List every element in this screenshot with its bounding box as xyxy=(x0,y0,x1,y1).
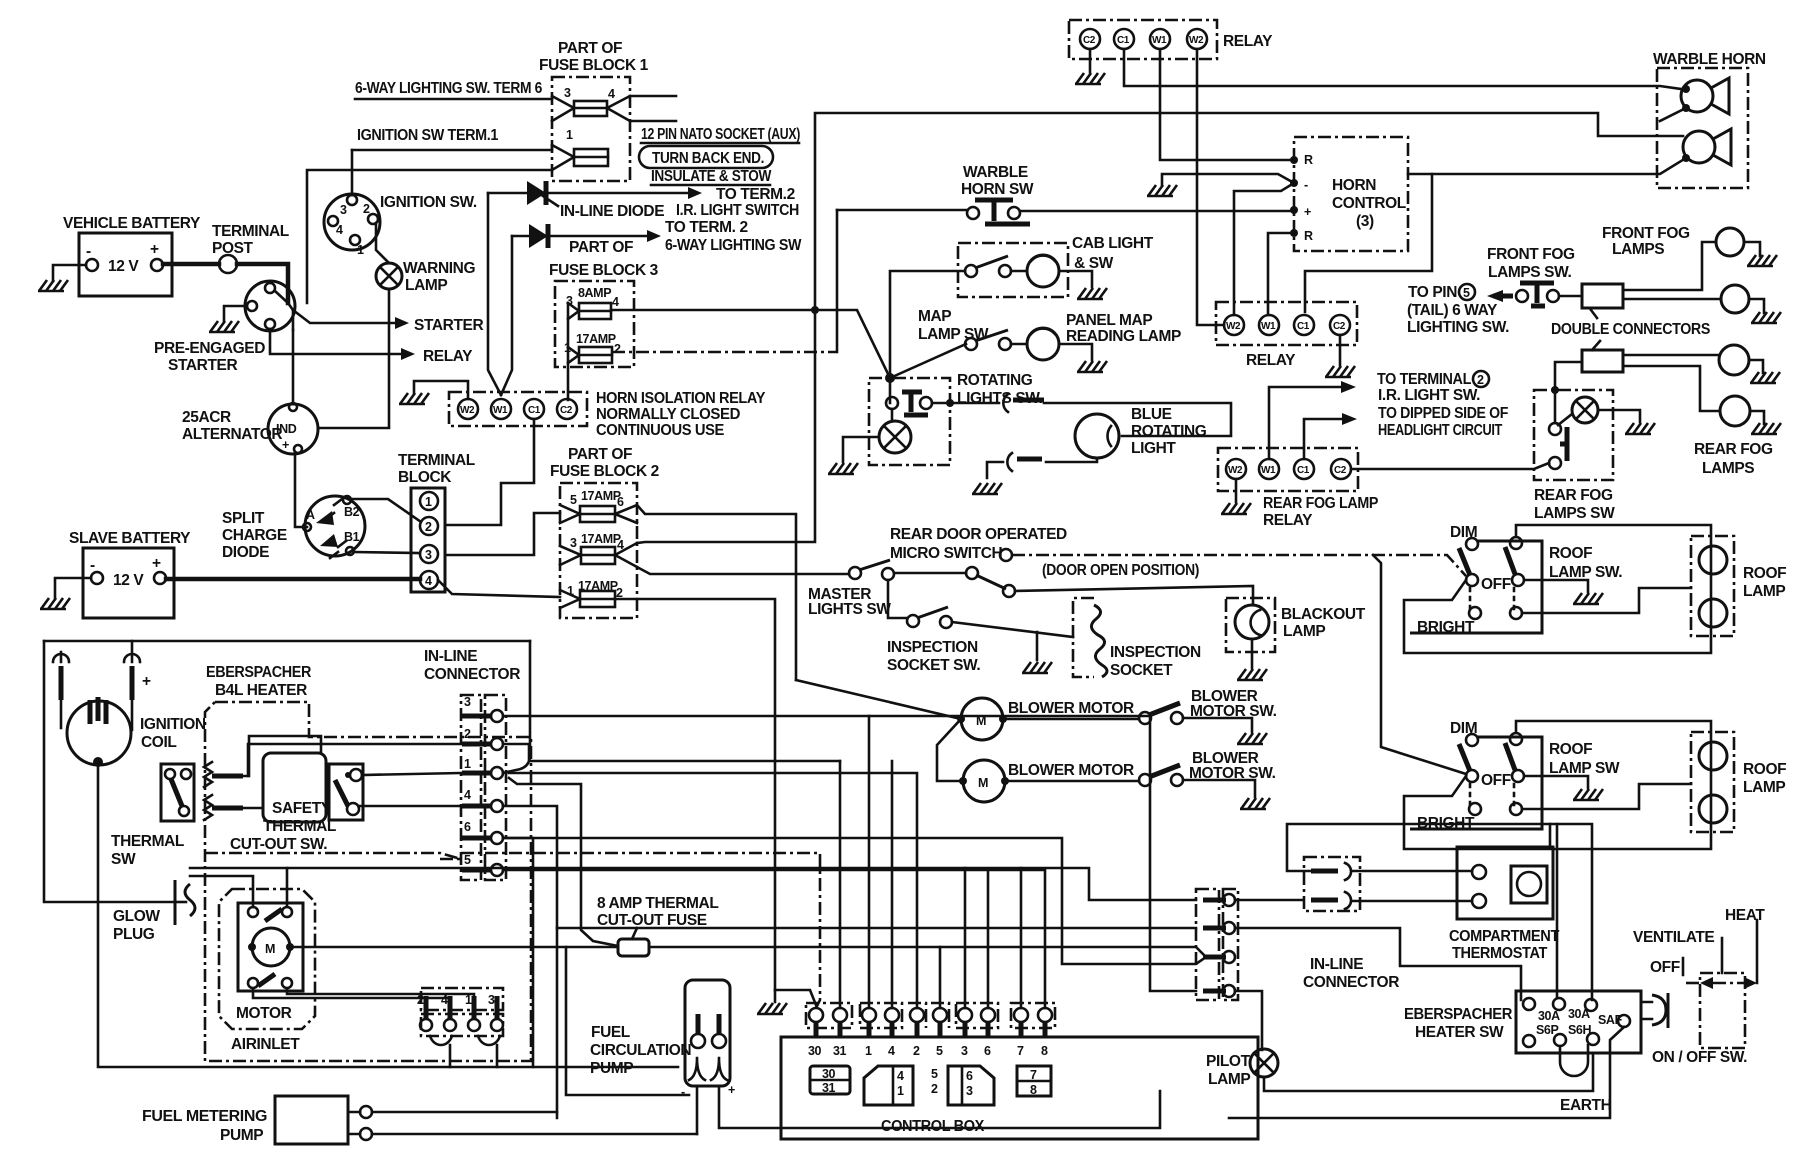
panel map reading lamp xyxy=(1027,328,1059,360)
wire warning lamp down to alternator xyxy=(318,289,389,428)
wire pin1 to 8amp fuse xyxy=(509,778,618,946)
rotating lights sw box xyxy=(869,378,950,465)
svg-text:FUEL METERING: FUEL METERING xyxy=(142,1108,267,1125)
svg-text:CONTROL BOX: CONTROL BOX xyxy=(881,1118,985,1135)
svg-text:FUSE BLOCK 1: FUSE BLOCK 1 xyxy=(539,57,649,74)
split charge diode xyxy=(305,496,365,556)
svg-text:3: 3 xyxy=(570,536,577,550)
svg-text:6: 6 xyxy=(617,495,624,509)
wire B1 to terminal 3 xyxy=(354,552,420,553)
wire master sw down to inspection sw xyxy=(888,580,907,618)
safety sw wires to connector xyxy=(359,773,461,806)
fuse 3-4 xyxy=(581,547,615,564)
earth wire xyxy=(1229,1027,1624,1118)
svg-text:BLOCK: BLOCK xyxy=(398,469,452,486)
wire fuse1-2 right down xyxy=(637,599,775,990)
svg-text:W1: W1 xyxy=(1261,465,1276,476)
horn isolation relay xyxy=(449,392,587,426)
in-line connector 4pin xyxy=(1196,889,1219,1000)
svg-text:HEATER SW: HEATER SW xyxy=(1415,1024,1504,1041)
svg-text:LAMP: LAMP xyxy=(1283,623,1325,640)
push switch in box xyxy=(886,397,898,409)
relay (top) xyxy=(1069,20,1217,59)
roof lamps 1 xyxy=(1691,536,1734,636)
svg-text:IN-LINE DIODE: IN-LINE DIODE xyxy=(560,203,664,220)
25ACR alternator xyxy=(268,404,318,454)
ground tap on inspection wire xyxy=(1036,632,1039,660)
svg-text:IND: IND xyxy=(276,422,297,436)
svg-text:3: 3 xyxy=(488,993,495,1007)
svg-text:LAMP: LAMP xyxy=(405,277,447,294)
svg-text:W2: W2 xyxy=(1226,321,1241,332)
8 amp fuse xyxy=(618,939,649,956)
svg-text:3: 3 xyxy=(425,548,432,562)
dash-dot wire to pin5 xyxy=(205,853,461,859)
motor wires xyxy=(190,868,287,907)
fuel circulation pump xyxy=(685,980,730,1086)
svg-text:1: 1 xyxy=(464,757,471,771)
svg-text:IN-LINE: IN-LINE xyxy=(1310,956,1363,973)
X lamp in box xyxy=(879,421,911,453)
svg-text:12 V: 12 V xyxy=(108,258,139,275)
ground at control box xyxy=(775,990,816,1005)
control box pins xyxy=(809,1008,1052,1022)
svg-text:PART OF: PART OF xyxy=(568,446,632,463)
svg-text:LAMP SW.: LAMP SW. xyxy=(1549,564,1622,581)
fuse 3-4 xyxy=(574,101,607,116)
heater sw pin2 supply xyxy=(1556,824,1559,998)
wires to thermostat xyxy=(1352,871,1472,901)
relay 2 xyxy=(1216,302,1357,345)
svg-text:8: 8 xyxy=(1041,1044,1048,1058)
svg-text:3: 3 xyxy=(966,1084,973,1098)
wire through 8amp fuse xyxy=(649,947,1206,957)
svg-text:PRE-ENGAGED: PRE-ENGAGED xyxy=(154,340,265,357)
svg-text:REAR FOG: REAR FOG xyxy=(1694,441,1773,458)
svg-text:LIGHT: LIGHT xyxy=(1131,440,1176,457)
wire rotating sw to arc switch 1 xyxy=(932,402,999,405)
svg-text:RELAY: RELAY xyxy=(1246,352,1296,369)
wire junction down to alternator top xyxy=(292,330,295,404)
svg-text:OFF: OFF xyxy=(1481,772,1511,789)
svg-text:MICRO SWITCH: MICRO SWITCH xyxy=(890,545,1003,562)
svg-text:FUEL: FUEL xyxy=(591,1024,630,1041)
svg-text:+: + xyxy=(1304,205,1311,219)
svg-text:R: R xyxy=(1304,153,1313,167)
rear fog lamp 1 xyxy=(1719,345,1749,375)
svg-text:6-WAY LIGHTING SW. TERM 6: 6-WAY LIGHTING SW. TERM 6 xyxy=(355,80,543,97)
lamp right lead to ground xyxy=(1598,410,1640,422)
wire micro sw right to blackout lamp xyxy=(1015,586,1253,605)
svg-text:BLACKOUT: BLACKOUT xyxy=(1281,606,1366,623)
svg-text:6-WAY LIGHTING SW: 6-WAY LIGHTING SW xyxy=(665,237,802,254)
svg-text:SOCKET SW.: SOCKET SW. xyxy=(887,657,980,674)
svg-text:PUMP: PUMP xyxy=(220,1127,263,1144)
svg-text:HORN SW: HORN SW xyxy=(961,181,1034,198)
double connector 1 xyxy=(1582,284,1623,308)
fuse 5-6 xyxy=(580,506,615,522)
svg-text:(DOOR OPEN POSITION): (DOOR OPEN POSITION) xyxy=(1042,562,1199,579)
svg-text:CUT-OUT FUSE: CUT-OUT FUSE xyxy=(597,912,707,929)
svg-text:OFF: OFF xyxy=(1650,959,1680,976)
svg-text:LAMPS SW: LAMPS SW xyxy=(1534,505,1615,522)
svg-text:WARBLE: WARBLE xyxy=(963,164,1028,181)
wire pin4 down xyxy=(503,806,557,1118)
ground under relay2 C2 xyxy=(1339,335,1342,365)
svg-text:M: M xyxy=(978,776,988,790)
svg-text:CONTINUOUS USE: CONTINUOUS USE xyxy=(596,422,724,439)
svg-text:WARNING: WARNING xyxy=(403,260,475,277)
cab lamp xyxy=(1027,255,1059,287)
svg-text:PUMP: PUMP xyxy=(590,1060,633,1077)
wire fuse1-2 right to warble horn sw riser xyxy=(612,351,837,354)
svg-text:DIODE: DIODE xyxy=(222,544,269,561)
svg-text:NORMALLY CLOSED: NORMALLY CLOSED xyxy=(596,406,740,423)
door open dash bus xyxy=(1012,555,1466,576)
airinlet box xyxy=(219,889,315,1029)
svg-text:CONNECTOR: CONNECTOR xyxy=(424,666,520,683)
svg-text:SPLIT: SPLIT xyxy=(222,510,265,527)
pilot lamp bottom wire xyxy=(1264,1053,1593,1091)
fuse 1 xyxy=(574,149,608,166)
master lights switch xyxy=(849,567,861,579)
wire fuse5-6 right down xyxy=(637,505,796,680)
svg-text:2: 2 xyxy=(931,1082,938,1096)
svg-text:SOCKET: SOCKET xyxy=(1110,662,1173,679)
pilot lamp xyxy=(1250,1049,1278,1077)
svg-text:OFF: OFF xyxy=(1481,576,1511,593)
starter left pin to ground xyxy=(224,306,247,321)
svg-text:VENTILATE: VENTILATE xyxy=(1633,929,1714,946)
warning lamp xyxy=(376,263,402,289)
svg-text:INSULATE & STOW: INSULATE & STOW xyxy=(651,168,772,185)
svg-text:IGNITION SW TERM.1: IGNITION SW TERM.1 xyxy=(357,127,499,144)
arc switch 1 xyxy=(1003,394,1008,412)
svg-text:ON / OFF SW.: ON / OFF SW. xyxy=(1652,1049,1747,1066)
svg-text:MOTOR: MOTOR xyxy=(236,1005,292,1022)
roof lamp sw 2 xyxy=(1410,737,1542,829)
glow plug wire right xyxy=(190,868,1196,900)
svg-text:3: 3 xyxy=(961,1044,968,1058)
svg-text:17AMP: 17AMP xyxy=(581,489,621,503)
wire motor2 to switch xyxy=(1009,780,1139,783)
svg-text:8 AMP THERMAL: 8 AMP THERMAL xyxy=(597,895,718,912)
svg-text:CONTROL: CONTROL xyxy=(1332,195,1406,212)
blower motor 2 xyxy=(963,760,1005,802)
compartment thermostat xyxy=(1457,847,1553,919)
svg-text:PART OF: PART OF xyxy=(558,40,622,57)
wire C2 to rear fog lamps sw xyxy=(1351,463,1549,469)
svg-text:HORN: HORN xyxy=(1332,177,1376,194)
fmp wires xyxy=(372,1112,697,1134)
svg-text:TO DIPPED SIDE OF: TO DIPPED SIDE OF xyxy=(1378,405,1508,422)
svg-text:12 PIN NATO SOCKET (AUX): 12 PIN NATO SOCKET (AUX) xyxy=(641,126,800,143)
svg-text:ROOF: ROOF xyxy=(1743,761,1786,778)
feed to motors xyxy=(796,680,961,781)
svg-text:S6H: S6H xyxy=(1568,1023,1591,1037)
motor M xyxy=(252,928,290,966)
connector row wires right xyxy=(1235,899,1303,902)
micro switch upper contact xyxy=(1000,549,1012,561)
rear fog lamp 2 xyxy=(1720,396,1750,426)
ground at horn isolation relay W2 xyxy=(414,381,468,399)
svg-text:W1: W1 xyxy=(1261,321,1276,332)
svg-text:PILOT: PILOT xyxy=(1206,1053,1251,1070)
svg-text:1: 1 xyxy=(566,128,573,142)
safety body xyxy=(263,753,326,822)
front fog lamp 2 xyxy=(1721,285,1749,313)
svg-text:C1: C1 xyxy=(1117,35,1130,46)
svg-text:1: 1 xyxy=(465,993,472,1007)
front fog lamp 1 xyxy=(1716,228,1744,256)
svg-text:LAMP: LAMP xyxy=(1743,779,1785,796)
svg-text:CUT-OUT SW.: CUT-OUT SW. xyxy=(230,836,327,853)
svg-text:LAMP: LAMP xyxy=(1208,1071,1250,1088)
svg-text:7: 7 xyxy=(1030,1068,1037,1082)
ground under C2 xyxy=(1089,49,1092,72)
svg-text:AIRINLET: AIRINLET xyxy=(231,1036,300,1053)
rear fog lamp relay xyxy=(1218,448,1358,491)
plus pin xyxy=(1290,206,1298,214)
inspection socket switch xyxy=(907,615,919,627)
in-line connector 6pin xyxy=(461,695,481,880)
blue rotating light xyxy=(1075,414,1119,458)
wire C1 to dipped side arrow xyxy=(1304,419,1342,459)
blackout lamp ground xyxy=(1251,639,1254,668)
wire terminal 3 to fuse block2 5-6 xyxy=(446,513,560,555)
svg-text:LAMP SW: LAMP SW xyxy=(1549,760,1620,777)
S6P-S6H link xyxy=(1560,1045,1588,1076)
svg-text:ROOF: ROOF xyxy=(1549,545,1592,562)
svg-text:5: 5 xyxy=(931,1067,938,1081)
svg-text:FRONT FOG: FRONT FOG xyxy=(1487,246,1575,263)
wires diodes down to horn isolation relay W1 xyxy=(488,193,512,395)
svg-text:CHARGE: CHARGE xyxy=(222,527,287,544)
svg-text:5: 5 xyxy=(936,1044,943,1058)
svg-text:LIGHTS SW: LIGHTS SW xyxy=(808,601,891,618)
svg-text:R: R xyxy=(1304,229,1313,243)
connector pin1 from top rail xyxy=(503,641,530,773)
roof sw2 wiring loop xyxy=(1404,721,1711,849)
svg-text:4: 4 xyxy=(425,574,432,588)
terminal block xyxy=(411,488,445,592)
svg-text:LAMPS SW.: LAMPS SW. xyxy=(1488,264,1571,281)
svg-text:REAR DOOR OPERATED: REAR DOOR OPERATED xyxy=(890,526,1067,543)
ignition switch xyxy=(324,194,380,250)
verticals to control box pins xyxy=(868,716,871,1008)
wire W1 to terminal 2 arrow xyxy=(1269,387,1341,459)
svg-text:BLOWER MOTOR: BLOWER MOTOR xyxy=(1008,700,1134,717)
svg-text:TO TERM.2: TO TERM.2 xyxy=(716,186,795,203)
vehicle battery xyxy=(79,233,172,296)
svg-text:+: + xyxy=(728,1083,735,1097)
svg-text:5: 5 xyxy=(570,493,577,507)
heater outline xyxy=(205,702,531,1061)
svg-text:COIL: COIL xyxy=(141,734,176,751)
svg-text:12 V: 12 V xyxy=(113,572,144,589)
fuse 3-4 of block 3 xyxy=(579,303,611,319)
svg-text:TERMINAL: TERMINAL xyxy=(398,452,475,469)
svg-text:4: 4 xyxy=(608,87,615,101)
roof lamp sw 1 xyxy=(1410,541,1542,633)
svg-text:LAMP: LAMP xyxy=(1743,583,1785,600)
svg-text:SAF: SAF xyxy=(1598,1013,1623,1027)
svg-text:1: 1 xyxy=(425,495,432,509)
terminal post xyxy=(219,255,237,273)
svg-text:+: + xyxy=(150,241,159,258)
svg-text:I.R. LIGHT SW.: I.R. LIGHT SW. xyxy=(1378,387,1480,404)
svg-text:FUSE BLOCK 3: FUSE BLOCK 3 xyxy=(549,262,659,279)
slave battery plus to terminal block 4 (thick) xyxy=(166,577,420,582)
svg-text:IGNITION: IGNITION xyxy=(140,716,206,733)
wire alternator bottom to split charge diode xyxy=(295,453,307,527)
y928 long wire xyxy=(557,927,1196,930)
svg-text:W2: W2 xyxy=(1189,35,1204,46)
svg-text:TERMINAL: TERMINAL xyxy=(212,223,289,240)
svg-text:SAFETY: SAFETY xyxy=(272,800,332,817)
svg-text:+: + xyxy=(282,438,289,452)
ground from sw2 xyxy=(1524,776,1588,788)
svg-text:2: 2 xyxy=(464,727,471,741)
svg-text:LAMPS: LAMPS xyxy=(1702,460,1754,477)
svg-text:THERMAL: THERMAL xyxy=(111,833,184,850)
svg-text:POST: POST xyxy=(212,240,254,257)
svg-text:LAMPS: LAMPS xyxy=(1612,241,1664,258)
svg-text:C1: C1 xyxy=(528,405,541,416)
svg-text:ROTATING: ROTATING xyxy=(1131,423,1207,440)
svg-text:4: 4 xyxy=(888,1044,895,1058)
svg-text:IN-LINE: IN-LINE xyxy=(424,648,477,665)
svg-text:1: 1 xyxy=(357,243,364,257)
reading lamp to ground xyxy=(1059,344,1092,360)
wire master sw to micro sw lower xyxy=(894,572,966,575)
eberspacher heater sw xyxy=(1516,991,1641,1053)
ignition coil xyxy=(67,701,131,765)
wire ignition pin2 to warning lamp xyxy=(376,223,389,263)
ground under rear fog relay W2 xyxy=(1235,479,1238,502)
motor box xyxy=(238,903,303,991)
horn 2 xyxy=(1683,131,1715,163)
wire battery neg to ground xyxy=(53,265,86,281)
heater supply connectors xyxy=(61,641,132,662)
minus pin chevron with ground xyxy=(1290,179,1298,187)
svg-text:17AMP: 17AMP xyxy=(576,332,616,346)
cab light switch xyxy=(965,265,977,277)
4/1 house xyxy=(864,1066,913,1105)
svg-text:W1: W1 xyxy=(493,405,508,416)
svg-text:5: 5 xyxy=(1463,286,1470,300)
svg-text:4: 4 xyxy=(897,1069,904,1083)
pin dash boxes xyxy=(806,1003,1055,1028)
svg-text:1: 1 xyxy=(865,1044,872,1058)
svg-text:C2: C2 xyxy=(1334,465,1347,476)
svg-text:C1: C1 xyxy=(1297,321,1310,332)
svg-text:PART OF: PART OF xyxy=(569,239,633,256)
svg-text:STARTER: STARTER xyxy=(414,317,483,334)
svg-text:30A: 30A xyxy=(1538,1009,1560,1023)
svg-text:ROOF: ROOF xyxy=(1743,565,1786,582)
svg-text:(TAIL) 6 WAY: (TAIL) 6 WAY xyxy=(1407,302,1498,319)
horn control right side to horn2 and relay2 C1 xyxy=(1305,174,1432,312)
wire fuse block3 left down to C2 xyxy=(567,303,570,400)
svg-text:C2: C2 xyxy=(1333,321,1346,332)
wire sw top to connector 2 xyxy=(1555,362,1582,423)
wire inspection sw to inspection socket xyxy=(952,622,1073,637)
svg-text:TO TERMINAL: TO TERMINAL xyxy=(1377,371,1471,388)
svg-text:W2: W2 xyxy=(460,405,475,416)
svg-text:ROTATING: ROTATING xyxy=(957,372,1033,389)
dash wire to pin30 xyxy=(461,853,820,1008)
svg-text:8AMP: 8AMP xyxy=(578,286,611,300)
svg-text:-: - xyxy=(1304,178,1308,192)
svg-text:2: 2 xyxy=(913,1044,920,1058)
front fog lamps switch xyxy=(1516,290,1528,302)
svg-text:REAR FOG: REAR FOG xyxy=(1534,487,1613,504)
svg-text:REAR FOG LAMP: REAR FOG LAMP xyxy=(1263,495,1378,512)
svg-text:STARTER: STARTER xyxy=(168,357,237,374)
double connector 2 xyxy=(1582,350,1623,372)
warble horn switch xyxy=(967,207,979,219)
fuse block 1 xyxy=(552,77,630,181)
wire to double connector 1 xyxy=(1559,295,1582,298)
safety switch xyxy=(329,764,363,820)
on/off sw xyxy=(1641,1002,1652,1019)
svg-text:IGNITION SW.: IGNITION SW. xyxy=(380,194,477,211)
svg-text:RELAY: RELAY xyxy=(1223,33,1273,50)
pre-engaged starter xyxy=(245,281,295,331)
svg-text:DOUBLE CONNECTORS: DOUBLE CONNECTORS xyxy=(1551,321,1710,338)
svg-text:7: 7 xyxy=(1017,1044,1024,1058)
svg-text:B4L HEATER: B4L HEATER xyxy=(215,682,307,699)
svg-text:8: 8 xyxy=(1030,1083,1037,1097)
arc switch 2 xyxy=(1017,457,1042,462)
lamp left lead to ground xyxy=(843,437,879,462)
wire motor1 to switch xyxy=(1007,718,1139,721)
arrow to pin5 xyxy=(1497,294,1513,299)
wire row5 xyxy=(503,870,1045,1008)
wire terminal 4 to fuse block2 1-2 xyxy=(438,580,560,597)
svg-text:(3): (3) xyxy=(1356,213,1374,230)
svg-text:HORN ISOLATION RELAY: HORN ISOLATION RELAY xyxy=(596,390,766,407)
svg-text:1: 1 xyxy=(897,1084,904,1098)
wire starter bottom pin to RELAY arrow xyxy=(270,329,401,354)
fuse block 3 xyxy=(555,281,634,367)
svg-text:2: 2 xyxy=(1477,373,1484,387)
wire fuse3-4 lower to master lights sw xyxy=(637,567,849,574)
svg-text:C1: C1 xyxy=(1297,465,1310,476)
svg-text:2: 2 xyxy=(417,993,424,1007)
fuse 1-2 xyxy=(580,591,615,607)
svg-text:2: 2 xyxy=(614,342,621,356)
svg-text:PANEL MAP: PANEL MAP xyxy=(1066,312,1152,329)
outer feed rail top xyxy=(44,640,530,643)
wire row4 extension xyxy=(939,947,942,1008)
svg-text:6: 6 xyxy=(984,1044,991,1058)
svg-text:CONNECTOR: CONNECTOR xyxy=(1303,974,1399,991)
svg-text:SLAVE BATTERY: SLAVE BATTERY xyxy=(69,530,191,547)
svg-text:+: + xyxy=(142,673,151,690)
wire B2 to terminal 2 xyxy=(351,499,421,522)
blower motor 1 xyxy=(961,698,1003,740)
fuse block 2 xyxy=(560,483,637,618)
svg-text:BLUE: BLUE xyxy=(1131,406,1172,423)
ground from sw1 xyxy=(1524,580,1588,592)
svg-text:CAB LIGHT: CAB LIGHT xyxy=(1072,235,1154,252)
cab lamp to ground xyxy=(1059,271,1092,287)
svg-text:B2: B2 xyxy=(344,505,360,519)
wire pin6 down xyxy=(503,838,533,1067)
svg-text:LIGHTING SW.: LIGHTING SW. xyxy=(1407,319,1509,336)
